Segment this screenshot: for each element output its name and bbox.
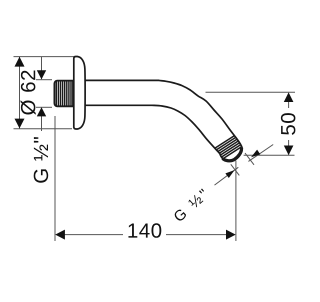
dimension G1/2 tip: leader lower with arrow xyxy=(215,167,239,185)
dimension G1/2 left: arrow down xyxy=(37,70,46,79)
dimension Ø62: arrow down xyxy=(15,119,25,129)
dimension G1/2 tip: extension line upper xyxy=(245,153,254,165)
dimension 50: extension line top xyxy=(206,91,296,93)
wall flange (escutcheon) xyxy=(74,57,85,130)
dimension Ø62: arrow up xyxy=(15,57,25,67)
dimension G1/2 left: tick bottom xyxy=(36,106,52,108)
dimension 140: arrow left xyxy=(55,230,65,240)
wall-side thread nipple with hatching xyxy=(54,81,73,107)
dimension 140: dimension line right part xyxy=(166,234,226,236)
dimension Ø62: extension line bottom xyxy=(14,128,73,130)
dimension 50: label xyxy=(281,113,296,135)
dimension G1/2 left: dimension line upper segment xyxy=(41,57,43,79)
shower arm tube outline xyxy=(84,80,242,161)
dimension G1/2 tip: label xyxy=(173,188,209,222)
dimension G1/2 left: arrow up xyxy=(37,107,46,116)
dimension 140: extension line left xyxy=(54,116,56,241)
dimension 50: arrow down xyxy=(284,146,294,156)
dimension G1/2 tip: leader upper with arrow xyxy=(248,145,273,162)
dimension 50: dimension line lower segment xyxy=(288,140,290,155)
dimension Ø62: label xyxy=(21,71,36,115)
dimension 140: arrow right xyxy=(226,230,236,240)
dimension Ø62: dimension line xyxy=(19,57,21,129)
dimension 50: extension line bottom xyxy=(244,154,295,156)
dimension G1/2 left: label xyxy=(34,137,49,183)
threaded tip end face (thick band) xyxy=(223,148,242,161)
dimension G1/2 tip: extension line lower xyxy=(231,164,240,175)
dimension 140: extension line right xyxy=(235,161,237,242)
dimension 140: dimension line left part xyxy=(65,234,124,236)
dimension G1/2 left: dimension line lower segment xyxy=(41,107,43,131)
dimension 140: label xyxy=(128,223,161,238)
dimension 50: dimension line upper segment xyxy=(288,94,290,108)
dimension Ø62: extension line top xyxy=(14,56,76,58)
dimension 50: arrow up xyxy=(284,92,294,102)
threaded tip hatching xyxy=(209,131,250,164)
dimension G1/2 left: tick top xyxy=(36,79,52,81)
